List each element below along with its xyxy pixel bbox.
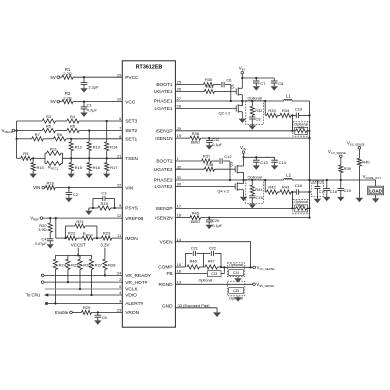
pin 14 VSEN label	[160, 237, 182, 246]
resistor R45	[190, 210, 201, 224]
wire UGATE2 row	[175, 168, 235, 170]
node LOAD box	[368, 186, 384, 195]
ground C20	[206, 225, 213, 229]
pin 23 VRON label	[117, 308, 140, 317]
wire IMON row	[56, 237, 123, 239]
wire phase2 node column	[243, 172, 245, 183]
wire VR_READY row	[44, 274, 122, 276]
svg-text:C10: C10	[295, 106, 303, 111]
wire TSEN row	[17, 157, 123, 159]
capacitor C9	[249, 115, 260, 124]
svg-text:13: 13	[177, 279, 182, 284]
node junction ISEN1P branch	[291, 115, 293, 131]
node junction VSEN sense	[250, 266, 252, 268]
capacitor C6	[222, 77, 232, 87]
ground exposed pad	[213, 312, 221, 317]
resistor RNTC1	[45, 153, 63, 170]
node junction VCC cap	[83, 101, 85, 103]
svg-text:R33: R33	[268, 108, 276, 113]
resistor R31	[204, 84, 214, 93]
node junction R21 loop right	[96, 237, 98, 239]
ground C7	[253, 86, 260, 90]
node VSS_SENSE output terminal	[253, 282, 274, 288]
svg-text:R46: R46	[190, 259, 197, 264]
node junction R43 C16	[291, 191, 293, 193]
svg-text:R44: R44	[298, 204, 304, 208]
pin 16 FB label	[166, 269, 181, 278]
resistor R8	[54, 132, 66, 141]
resistor R41	[250, 180, 262, 194]
capacitor C11	[206, 137, 223, 147]
svg-text:19: 19	[177, 133, 182, 138]
capacitor C17	[315, 180, 326, 199]
svg-text:UGATE1: UGATE1	[154, 89, 173, 95]
node Optional box R35	[293, 122, 310, 136]
svg-text:R30: R30	[205, 77, 213, 82]
pin 25 BOOT1 label	[156, 80, 181, 89]
svg-text:C20: C20	[212, 218, 220, 223]
pin 12 VREF06 label	[117, 213, 144, 222]
node junction rail ISEN2N	[308, 217, 310, 219]
wire ISEN2N row	[175, 217, 309, 219]
wire VCLK row	[45, 288, 123, 290]
pin 31 PHASE2 label	[154, 175, 182, 184]
capacitor C24	[229, 270, 244, 279]
resistor R12	[69, 139, 83, 159]
svg-text:R15: R15	[75, 165, 83, 170]
transistor Q3	[229, 159, 244, 174]
node Optional C23 network	[199, 271, 221, 283]
svg-text:C19: C19	[344, 188, 351, 193]
pin 20 ISEN1P label	[156, 126, 182, 135]
node junction PVCC cap	[83, 76, 85, 78]
node junction R25 VR_HOT	[67, 281, 69, 283]
capacitor C8	[271, 78, 284, 86]
resistor R46	[187, 259, 200, 270]
svg-text:VCCST: VCCST	[71, 242, 86, 247]
wire R2 to VCC pin	[73, 101, 122, 103]
node 3.3V supply	[100, 242, 109, 259]
resistor R43	[280, 185, 291, 194]
node junction phase2 node	[242, 179, 244, 181]
node junction VREGR bus SET2	[16, 129, 18, 131]
ground R40	[356, 198, 363, 202]
svg-text:SET1: SET1	[125, 137, 137, 143]
svg-text:R8: R8	[57, 132, 63, 137]
node junction IMON feed	[55, 217, 57, 219]
pin 15 COMP label	[158, 262, 182, 271]
resistor R4	[67, 114, 79, 123]
node VIN supply phase1	[239, 66, 245, 85]
ground C15	[249, 203, 256, 208]
ground C4	[47, 244, 54, 248]
svg-text:VDIO: VDIO	[125, 293, 137, 299]
pin 30 LGATE2 label	[155, 182, 182, 191]
node junction C13	[255, 156, 257, 158]
svg-text:R45: R45	[192, 210, 200, 215]
resistor R29	[82, 305, 92, 314]
node VR_HOT terminal	[41, 281, 44, 284]
capacitor C10	[295, 106, 303, 118]
node VREF input	[30, 216, 43, 222]
resistor R3	[42, 114, 55, 123]
svg-text:C2: C2	[73, 192, 79, 197]
svg-text:R12: R12	[75, 144, 83, 149]
svg-text:ISEN1N: ISEN1N	[155, 136, 173, 142]
wire PHASE1 row	[175, 100, 242, 102]
svg-text:R40: R40	[362, 160, 370, 165]
pin 26 UGATE1 label	[154, 87, 182, 96]
resistor R5	[42, 124, 55, 133]
svg-text:680Ω: 680Ω	[191, 141, 200, 145]
svg-text:15: 15	[177, 262, 182, 267]
node 5V supply PVCC	[50, 75, 59, 80]
node Optional box phase1	[246, 97, 264, 125]
pin 19 ISEN1N label	[155, 133, 182, 142]
wire SET1 row	[17, 138, 123, 140]
resistor R39	[339, 158, 351, 180]
svg-text:R31: R31	[206, 84, 214, 89]
svg-text:C24: C24	[233, 271, 239, 275]
svg-text:25: 25	[177, 80, 182, 85]
node junction C11	[208, 137, 210, 139]
transistor Q1	[230, 84, 243, 96]
svg-text:2.2µF: 2.2µF	[88, 84, 99, 89]
svg-text:R16: R16	[93, 165, 101, 170]
resistor R32	[250, 101, 262, 115]
node junction R20	[49, 217, 51, 219]
node Optional box C25	[227, 281, 245, 296]
svg-text:C5: C5	[102, 315, 108, 320]
svg-text:32: 32	[177, 164, 182, 169]
wire SET2 row	[15, 130, 123, 132]
capacitor C25	[229, 288, 244, 301]
wire BOOT2 to phase node	[229, 161, 231, 180]
ground C11	[206, 145, 213, 149]
resistor R7	[32, 132, 44, 141]
svg-text:IMON: IMON	[125, 236, 138, 242]
wire FB row	[175, 273, 224, 275]
node junction phase1 node	[241, 100, 243, 102]
resistor R19	[98, 201, 111, 210]
transistor Q4	[217, 182, 243, 197]
svg-text:RT3612EB: RT3612EB	[136, 64, 163, 70]
svg-text:C11: C11	[212, 137, 219, 142]
svg-text:PHASE2: PHASE2	[154, 178, 173, 184]
capacitor C7	[253, 78, 266, 86]
resistor R11	[45, 146, 63, 163]
node junction C7	[255, 77, 257, 79]
capacitor C2	[66, 188, 79, 198]
svg-text:VR_READY: VR_READY	[125, 273, 152, 279]
svg-text:COMP: COMP	[158, 265, 172, 271]
node ALERT arrow	[45, 302, 48, 305]
ground PSYS	[85, 208, 92, 215]
svg-text:28: 28	[177, 104, 182, 109]
svg-text:Optional: Optional	[229, 263, 243, 267]
node junction rail sense2	[308, 191, 310, 193]
svg-text:VR_HOT#: VR_HOT#	[125, 280, 147, 286]
resistor R16	[87, 158, 101, 173]
pin 3 ALERT# label	[119, 299, 144, 308]
wire R18 to VIN pin	[55, 187, 122, 189]
wire R1 to PVCC pin	[73, 76, 122, 78]
svg-text:3.3V: 3.3V	[100, 242, 109, 247]
svg-text:VCLK: VCLK	[125, 287, 138, 293]
svg-text:10: 10	[117, 97, 122, 102]
wire phase2 to L2	[244, 179, 284, 181]
wire VCORE output rail	[310, 179, 376, 181]
capacitor C5	[95, 312, 108, 320]
svg-text:GND: GND	[162, 303, 173, 309]
wire ALERT row	[48, 303, 123, 305]
svg-text:29: 29	[117, 72, 122, 77]
svg-text:PVCC: PVCC	[125, 75, 139, 81]
svg-text:Optional: Optional	[248, 176, 262, 180]
svg-text:VREF06: VREF06	[125, 216, 143, 222]
pin 5 VCLK label	[119, 284, 138, 293]
ground R15	[68, 174, 75, 178]
svg-text:R19: R19	[101, 201, 109, 206]
svg-text:5V: 5V	[50, 99, 55, 104]
capacitor C1	[81, 102, 98, 113]
pin 4 VDIO label	[119, 290, 137, 299]
svg-text:0.1µF: 0.1µF	[212, 143, 222, 147]
pin 7 SET2 label	[119, 126, 137, 135]
svg-text:R23: R23	[103, 231, 111, 236]
node junction R24 ALERT	[54, 302, 56, 304]
resistor R30	[204, 77, 214, 86]
svg-text:R9: R9	[23, 151, 29, 156]
svg-text:C15: C15	[256, 195, 263, 200]
svg-text:VSEN: VSEN	[160, 239, 174, 245]
svg-text:ALERT#: ALERT#	[125, 301, 143, 307]
svg-text:27: 27	[177, 96, 182, 101]
svg-text:R36: R36	[192, 131, 200, 136]
pin 8 SET1 label	[119, 134, 137, 143]
wire phase1 node column	[241, 95, 243, 107]
svg-text:18: 18	[177, 213, 182, 218]
svg-text:R35: R35	[298, 126, 304, 130]
inductor L1	[284, 94, 292, 101]
svg-text:R22: R22	[68, 231, 76, 236]
node Optional box phase2	[246, 176, 264, 204]
pin 28 LGATE1 label	[155, 104, 182, 113]
node junction R13 SET2	[88, 129, 90, 131]
pin 33 GND label	[162, 303, 210, 309]
wire phase1 to L1	[242, 100, 283, 102]
svg-text:R18: R18	[47, 180, 55, 185]
ground C18	[323, 197, 330, 201]
node VIN supply phase2	[240, 145, 246, 159]
resistor R36	[190, 131, 201, 145]
svg-text:23: 23	[117, 308, 122, 313]
resistor R23	[102, 231, 112, 241]
node junction ISEN2P branch	[291, 192, 293, 209]
ground PVCC cap	[80, 88, 87, 92]
svg-text:FB: FB	[166, 271, 172, 277]
node VREGR input	[2, 128, 15, 134]
svg-text:C18: C18	[330, 189, 337, 194]
wire RGND row	[175, 283, 252, 285]
node VSS_SENSE terminal	[347, 141, 365, 149]
wire LOAD drop	[375, 180, 377, 186]
svg-text:PHASE1: PHASE1	[154, 99, 173, 105]
node junction R32 top	[251, 100, 253, 102]
resistor R44	[295, 204, 308, 212]
pin 24 VR_READY label	[117, 271, 152, 280]
node junction R21 loop left	[64, 237, 66, 239]
svg-text:To CPU: To CPU	[26, 293, 40, 298]
ground C24	[234, 278, 241, 282]
wire IMON feed vertical	[55, 218, 57, 238]
wire ISEN2P row	[175, 207, 309, 209]
resistor R40	[357, 149, 370, 198]
svg-text:C3: C3	[101, 191, 107, 196]
resistor R34	[280, 108, 291, 117]
svg-text:R13: R13	[93, 144, 101, 149]
resistor R38	[204, 162, 214, 171]
capacitor C4	[35, 237, 54, 246]
pin 6 SET3 label	[119, 116, 137, 125]
svg-text:R10: R10	[37, 165, 45, 170]
ground Q2 source	[239, 119, 246, 123]
node junction R34 C10	[291, 114, 293, 116]
svg-text:C16: C16	[295, 183, 303, 188]
svg-text:BOOT2: BOOT2	[156, 159, 173, 165]
svg-text:R3: R3	[46, 114, 52, 119]
node junction VCCST rail	[77, 254, 79, 256]
svg-text:LGATE2: LGATE2	[155, 184, 173, 190]
svg-text:R47: R47	[208, 259, 215, 264]
ground C9	[249, 125, 256, 130]
svg-text:R41: R41	[255, 187, 262, 192]
pin 29 PVCC label	[117, 72, 139, 81]
node junction VIN rail2	[242, 156, 244, 158]
resistor R33	[267, 108, 278, 117]
node Optional box R44	[293, 199, 310, 213]
inductor L2	[284, 173, 292, 180]
ground C19	[337, 197, 344, 201]
wire 5V to R2	[60, 101, 62, 103]
resistor RNTC2	[82, 231, 93, 240]
svg-text:R32: R32	[255, 108, 262, 113]
capacitor C18	[324, 180, 337, 197]
svg-text:R39: R39	[344, 166, 351, 171]
node junction R26 VCLK	[79, 288, 81, 290]
wire R27 drop	[91, 270, 93, 296]
node junction BOOT2 phase	[229, 179, 231, 181]
svg-text:C12: C12	[224, 154, 232, 159]
svg-text:Enable: Enable	[55, 310, 69, 315]
resistor R14	[105, 121, 119, 158]
resistor R25	[66, 255, 79, 269]
node VR_READY terminal	[41, 274, 44, 277]
svg-text:21: 21	[117, 153, 122, 158]
svg-text:VIN: VIN	[33, 185, 40, 190]
resistor R13	[87, 131, 101, 159]
svg-text:R43: R43	[282, 185, 290, 190]
pin 13 RGND label	[158, 279, 181, 288]
transistor Q2	[219, 101, 243, 119]
svg-text:C7: C7	[260, 81, 266, 86]
svg-text:0.1µF: 0.1µF	[212, 224, 222, 228]
capacitor C13	[253, 157, 269, 165]
wire PSYS row	[89, 207, 123, 209]
svg-text:VRON: VRON	[125, 310, 139, 316]
svg-text:Q1: Q1	[230, 84, 235, 89]
resistor R2	[62, 91, 73, 104]
node Enable input	[55, 310, 72, 315]
node 5V supply VCC	[50, 99, 59, 104]
svg-text:R17: R17	[110, 165, 118, 170]
wire BOOT2 row	[175, 160, 230, 162]
svg-text:ISEN2N: ISEN2N	[155, 215, 173, 221]
wire COMP row	[175, 266, 221, 268]
node junction R9 R10	[32, 157, 34, 159]
svg-text:PSYS: PSYS	[125, 206, 138, 212]
svg-text:ISEN1P: ISEN1P	[156, 129, 173, 135]
resistor R9	[21, 151, 32, 160]
node junction R39 rail	[340, 179, 342, 181]
node VIN input	[33, 185, 45, 190]
capacitor C20	[206, 218, 223, 228]
svg-text:26: 26	[177, 87, 182, 92]
wire BOOT1 row	[175, 84, 230, 86]
ground C25	[234, 297, 241, 301]
ground C8	[271, 86, 278, 90]
node junction COMP FB	[220, 266, 222, 268]
wire UGATE1 row	[175, 91, 236, 93]
IC U1 RT3612EB controller body	[122, 61, 175, 327]
resistor R17	[105, 158, 119, 173]
svg-text:C13: C13	[260, 160, 268, 165]
svg-text:LGATE1: LGATE1	[155, 106, 173, 112]
pin 22 VIN label	[117, 183, 134, 192]
resistor R24	[53, 255, 66, 269]
svg-text:BOOT1: BOOT1	[156, 82, 173, 88]
svg-text:C6: C6	[226, 77, 232, 82]
wire R28 drop	[104, 270, 106, 276]
node junction rail sense1	[308, 114, 310, 116]
wire LGATE2 row	[175, 186, 235, 188]
svg-text:30: 30	[177, 182, 182, 187]
resistor R10	[31, 158, 45, 173]
wire BOOT1 to phase node	[230, 85, 232, 102]
node VCCST supply	[71, 242, 86, 255]
wire VCCST rail	[55, 254, 91, 256]
ground C14	[271, 165, 278, 169]
wire VIN rail2	[244, 156, 275, 158]
wire GND pin to ground	[175, 308, 217, 313]
svg-text:Q3: Q3	[229, 162, 234, 167]
node junction R28 VR_READY	[104, 274, 106, 276]
svg-text:C8: C8	[278, 81, 284, 86]
ground R10	[29, 174, 36, 178]
node junction rail ISEN1N	[308, 137, 310, 139]
svg-text:20: 20	[177, 126, 182, 131]
wire LGATE1 row	[175, 108, 236, 110]
node junction sense1 branch	[264, 100, 266, 102]
node junction BOOT1 phase	[230, 100, 232, 102]
resistor R21	[66, 219, 97, 238]
resistor R18	[45, 180, 56, 189]
resistor R20	[38, 218, 52, 239]
node junction VIN rail1	[241, 77, 243, 79]
capacitor C21	[186, 246, 204, 267]
wire sense1 branch vertical	[264, 101, 266, 115]
node VCC_SENSE output terminal	[253, 265, 275, 271]
